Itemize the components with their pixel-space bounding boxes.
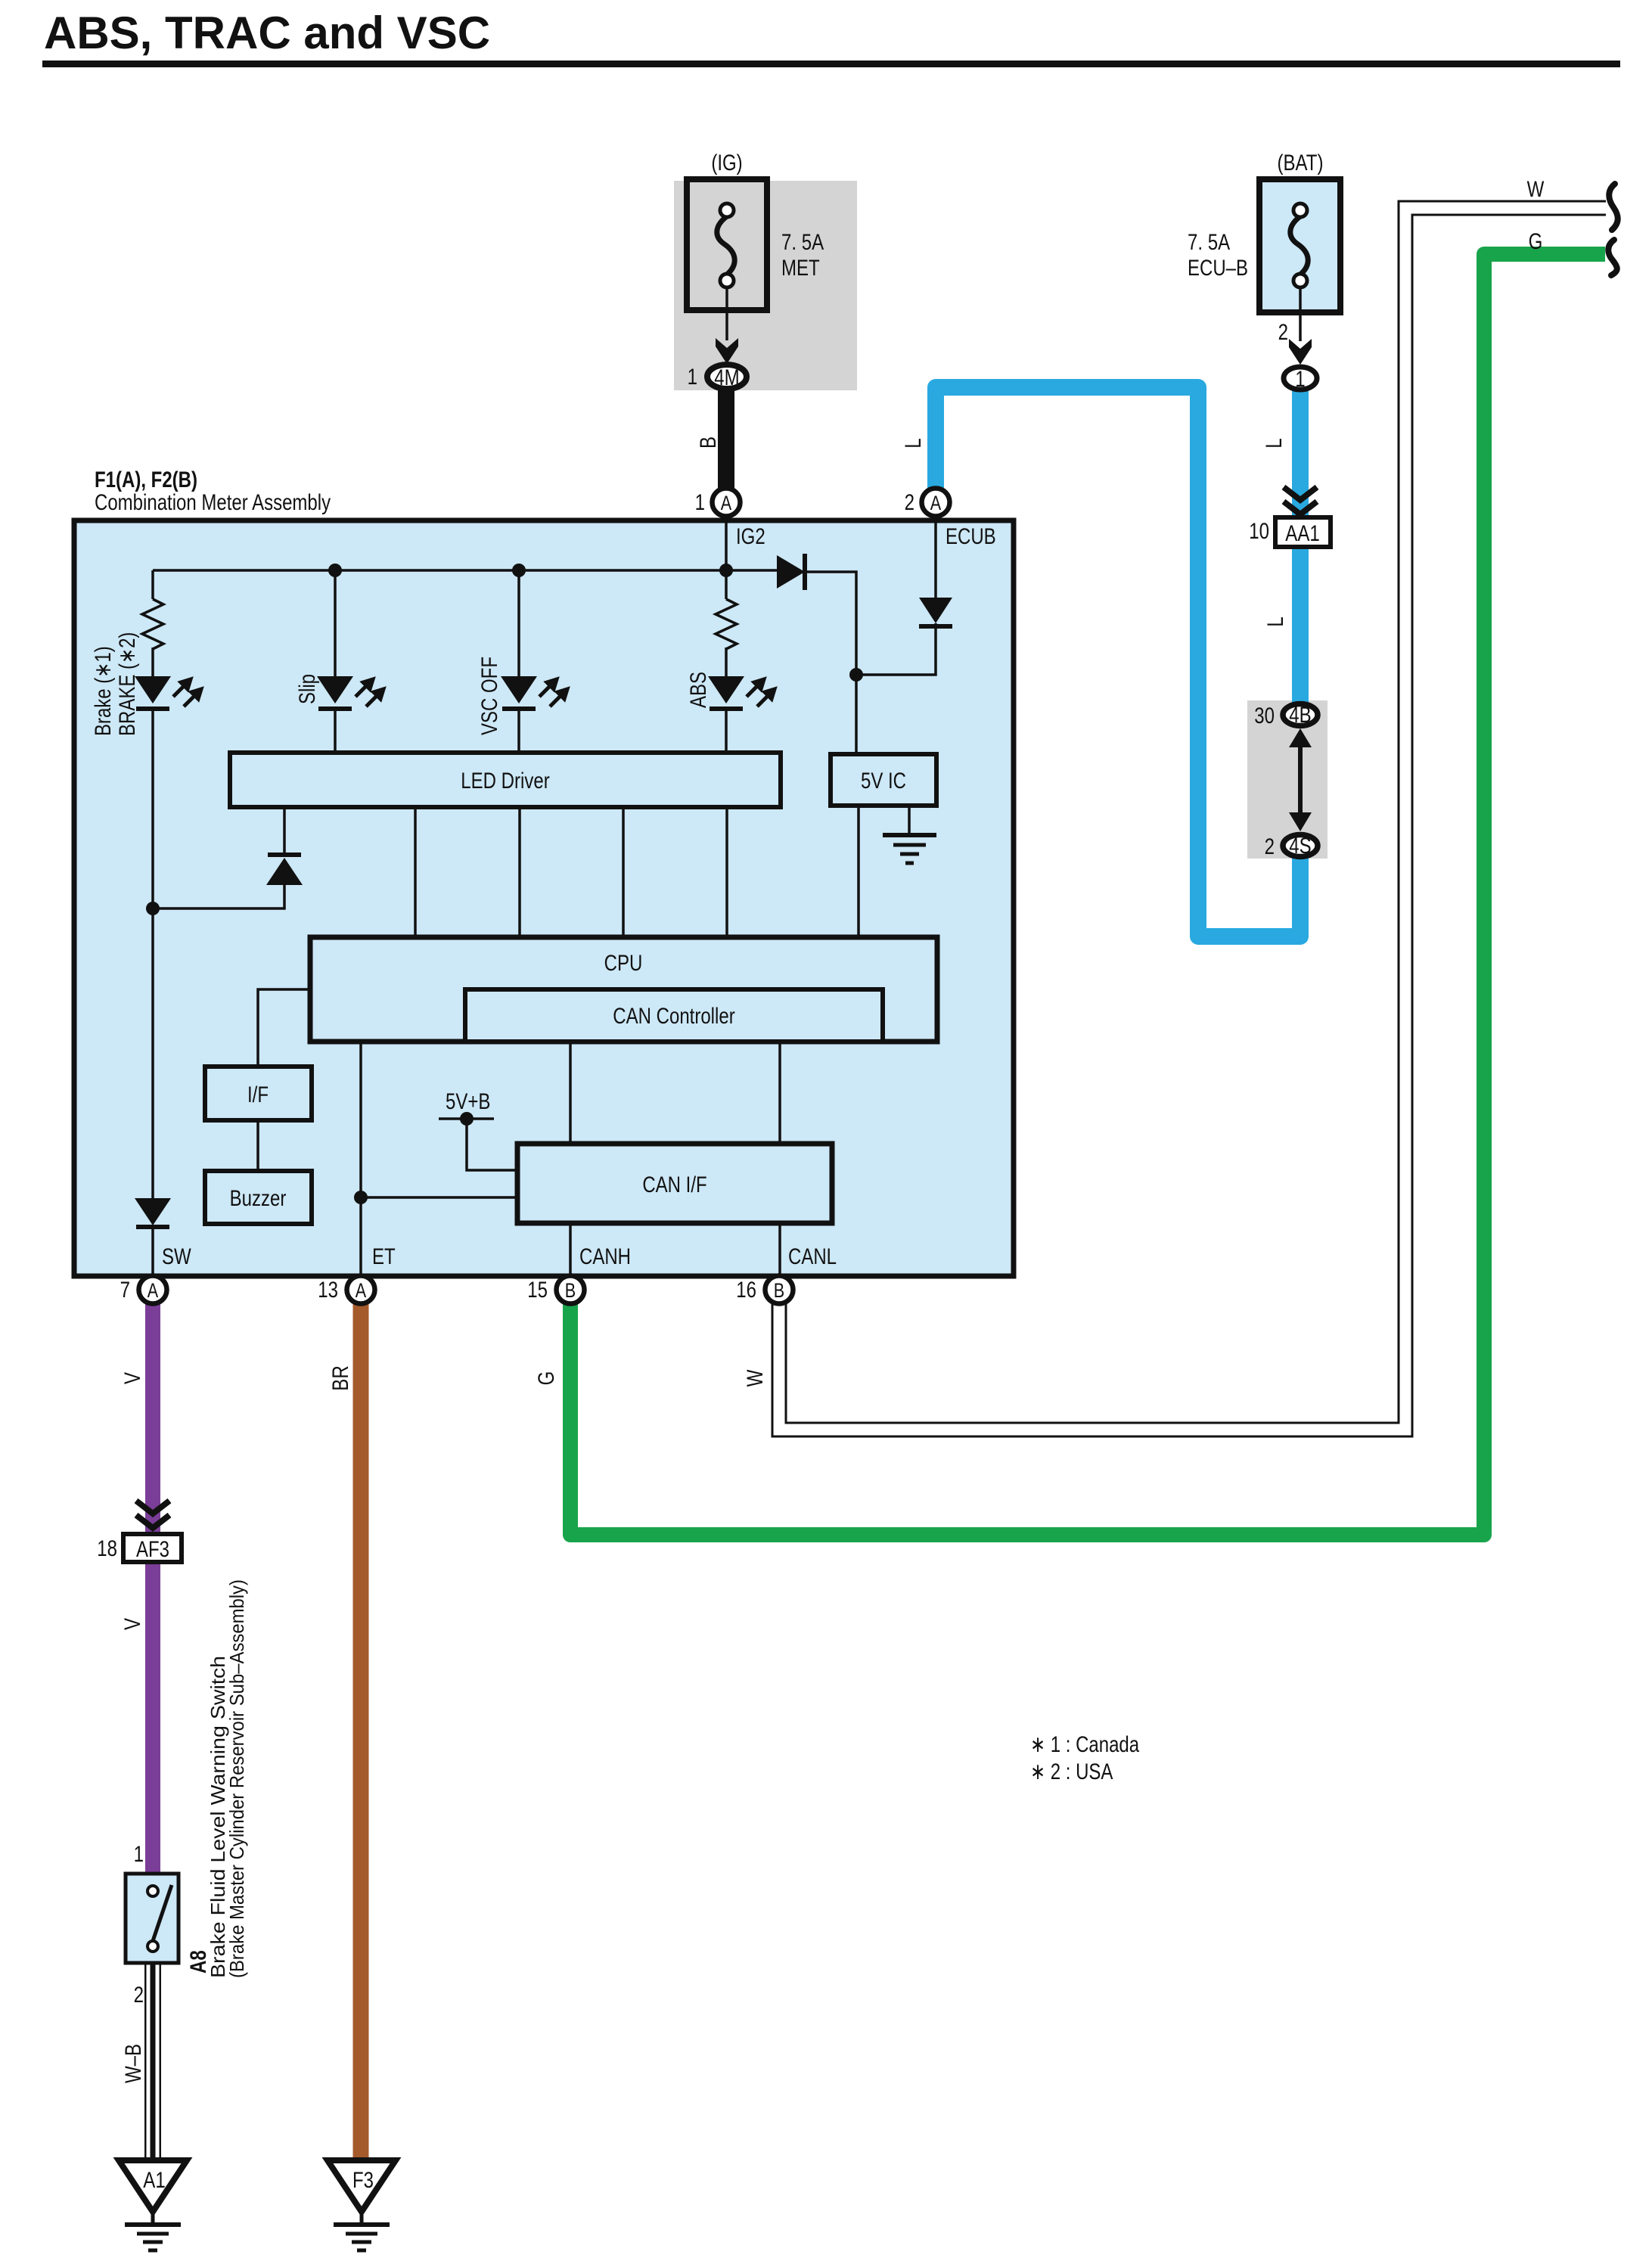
svg-text:F1(A), F2(B): F1(A), F2(B) xyxy=(95,467,197,492)
svg-text:15: 15 xyxy=(527,1278,548,1303)
svg-text:16: 16 xyxy=(736,1278,756,1303)
svg-text:1: 1 xyxy=(134,1842,144,1867)
svg-text:BRAKE (∗2): BRAKE (∗2) xyxy=(115,632,140,736)
svg-text:Combination Meter Assembly: Combination Meter Assembly xyxy=(95,490,331,515)
svg-text:W: W xyxy=(1527,177,1545,202)
svg-text:W: W xyxy=(743,1369,768,1387)
svg-text:ABS, TRAC and VSC: ABS, TRAC and VSC xyxy=(44,8,490,58)
svg-text:AF3: AF3 xyxy=(136,1537,169,1562)
svg-text:L: L xyxy=(1262,438,1287,448)
svg-text:2: 2 xyxy=(134,1983,144,2008)
svg-text:A: A xyxy=(147,1279,158,1302)
svg-text:BR: BR xyxy=(328,1365,353,1390)
svg-text:L: L xyxy=(901,438,926,448)
svg-text:(IG): (IG) xyxy=(711,151,742,175)
svg-text:4S: 4S xyxy=(1289,834,1311,859)
svg-text:13: 13 xyxy=(318,1278,338,1303)
svg-text:(BAT): (BAT) xyxy=(1278,151,1324,175)
svg-text:7: 7 xyxy=(120,1278,130,1303)
svg-text:IG2: IG2 xyxy=(736,524,765,549)
svg-text:A: A xyxy=(930,492,941,514)
svg-text:∗ 1 : Canada: ∗ 1 : Canada xyxy=(1030,1732,1139,1757)
svg-text:G: G xyxy=(1529,229,1543,254)
svg-text:ECU–B: ECU–B xyxy=(1188,256,1248,281)
svg-text:ABS: ABS xyxy=(686,672,711,708)
svg-text:4B: 4B xyxy=(1289,703,1311,728)
svg-text:L: L xyxy=(1263,616,1288,626)
svg-text:∗ 2 : USA: ∗ 2 : USA xyxy=(1030,1759,1113,1784)
svg-text:2: 2 xyxy=(1278,320,1288,345)
svg-text:Brake (∗1): Brake (∗1) xyxy=(91,646,116,736)
svg-text:4M: 4M xyxy=(714,365,739,390)
svg-text:CPU: CPU xyxy=(604,951,643,976)
svg-text:Slip: Slip xyxy=(295,674,320,704)
svg-text:SW: SW xyxy=(162,1244,191,1269)
svg-text:5V+B: 5V+B xyxy=(446,1089,490,1114)
svg-text:VSC OFF: VSC OFF xyxy=(477,657,502,735)
svg-text:Buzzer: Buzzer xyxy=(230,1186,287,1211)
svg-text:B: B xyxy=(565,1279,576,1302)
svg-text:2: 2 xyxy=(1265,834,1275,859)
svg-text:G: G xyxy=(534,1371,559,1386)
svg-text:1: 1 xyxy=(1295,367,1305,392)
svg-text:AA1: AA1 xyxy=(1285,521,1319,546)
svg-text:B: B xyxy=(774,1279,784,1302)
svg-text:CAN I/F: CAN I/F xyxy=(642,1172,706,1197)
svg-text:A: A xyxy=(356,1279,366,1302)
svg-text:(Brake Master Cylinder Reservo: (Brake Master Cylinder Reservoir Sub–Ass… xyxy=(225,1579,248,1978)
svg-text:10: 10 xyxy=(1249,519,1269,544)
svg-text:A: A xyxy=(721,492,731,514)
svg-text:V: V xyxy=(120,1618,145,1630)
svg-text:LED Driver: LED Driver xyxy=(461,769,549,793)
svg-text:ECUB: ECUB xyxy=(946,524,996,549)
svg-text:2: 2 xyxy=(905,490,914,515)
svg-text:ET: ET xyxy=(372,1244,396,1269)
svg-text:30: 30 xyxy=(1254,703,1275,728)
svg-text:W–B: W–B xyxy=(121,2044,146,2083)
svg-text:7. 5A: 7. 5A xyxy=(1188,230,1230,255)
svg-text:MET: MET xyxy=(781,256,820,281)
svg-text:F3: F3 xyxy=(352,2168,374,2193)
svg-text:V: V xyxy=(120,1372,145,1384)
svg-text:B: B xyxy=(696,436,721,449)
svg-text:1: 1 xyxy=(695,490,705,515)
svg-text:1: 1 xyxy=(688,365,697,390)
svg-text:CANH: CANH xyxy=(579,1244,631,1269)
svg-text:CANL: CANL xyxy=(788,1244,837,1269)
svg-text:A1: A1 xyxy=(143,2168,165,2193)
svg-text:18: 18 xyxy=(97,1536,117,1561)
svg-text:5V IC: 5V IC xyxy=(861,769,906,793)
svg-text:CAN Controller: CAN Controller xyxy=(613,1004,734,1029)
svg-text:I/F: I/F xyxy=(247,1082,269,1107)
svg-text:7. 5A: 7. 5A xyxy=(781,230,824,255)
